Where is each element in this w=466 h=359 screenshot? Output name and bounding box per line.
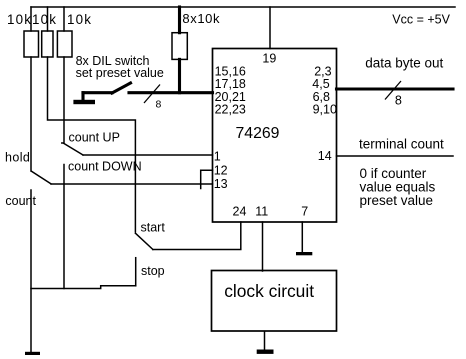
ground G2 bar pin 7 <box>296 252 312 255</box>
svg-text:1: 1 <box>214 150 221 164</box>
IC U1 74269 box <box>213 49 337 223</box>
svg-text:10k: 10k <box>67 12 92 27</box>
svg-text:11: 11 <box>255 205 268 219</box>
resistor R1 10k body <box>24 31 39 57</box>
resistor RN1 8x10k body <box>172 33 187 60</box>
wire R3 bottom lead to count UP contact <box>62 57 64 143</box>
svg-text:14: 14 <box>318 149 332 163</box>
wire pin 11 to clock circuit <box>262 222 264 271</box>
svg-text:hold: hold <box>5 151 30 165</box>
DIL switch S1 blade <box>112 83 131 93</box>
ground G1 bar <box>25 352 40 355</box>
svg-text:9,10: 9,10 <box>313 103 337 117</box>
svg-text:10k: 10k <box>32 12 57 27</box>
switch S4 blade start/stop <box>135 233 153 249</box>
bus data byte out <box>337 87 454 90</box>
DIL switch S1 horizontal <box>83 91 112 94</box>
svg-text:clock circuit: clock circuit <box>224 281 314 301</box>
resistor RN1 top lead thick <box>178 7 181 33</box>
svg-text:12: 12 <box>214 163 228 177</box>
svg-text:set preset value: set preset value <box>76 66 164 80</box>
DIL switch S1 stub <box>81 93 84 101</box>
wire pin 14 terminal count <box>337 155 454 157</box>
wire count contact to ground <box>30 190 32 352</box>
svg-text:8: 8 <box>156 99 162 111</box>
wire pin 19 Vcc lead <box>269 7 271 49</box>
wire count DOWN contact to ground rail <box>63 165 65 289</box>
svg-text:10k: 10k <box>7 12 32 27</box>
slash 8-bit bus left <box>144 85 160 104</box>
wire R2 bottom lead to start contact <box>48 57 136 232</box>
svg-text:8: 8 <box>395 94 402 108</box>
wire ground rail <box>31 286 136 289</box>
wire R3 top lead <box>63 7 65 31</box>
svg-text:22,23: 22,23 <box>215 103 246 117</box>
wire R1 bottom lead to hold contact <box>30 57 32 171</box>
wire stop contact <box>135 258 137 286</box>
wire clock circuit to ground <box>264 331 266 349</box>
wire R2 top lead <box>47 7 49 31</box>
wire Vcc top rail <box>31 6 455 8</box>
svg-text:count: count <box>5 194 36 208</box>
svg-text:count DOWN: count DOWN <box>68 160 142 174</box>
switch S2 blade hold/count <box>32 171 52 184</box>
svg-text:74269: 74269 <box>236 125 280 142</box>
svg-text:terminal count: terminal count <box>359 137 444 152</box>
wire start switch to pin 24 <box>153 222 241 250</box>
wire pin 7 to ground <box>301 222 303 252</box>
wire to pins 12,13 <box>51 183 213 185</box>
svg-text:19: 19 <box>262 52 276 66</box>
svg-text:data byte out: data byte out <box>365 56 443 71</box>
svg-text:8x10k: 8x10k <box>182 11 220 26</box>
wire pin 12/13 bracket <box>201 170 213 188</box>
resistor R2 10k body <box>42 31 53 57</box>
svg-text:start: start <box>141 221 166 235</box>
resistor RN1 bottom lead thick <box>178 59 181 92</box>
svg-text:stop: stop <box>141 264 165 278</box>
svg-text:preset value: preset value <box>360 193 434 208</box>
svg-text:Vcc = +5V: Vcc = +5V <box>392 13 450 27</box>
svg-text:24: 24 <box>233 205 247 219</box>
bus preset value 8-bit <box>129 91 213 94</box>
clock circuit box <box>212 271 337 332</box>
svg-text:13: 13 <box>214 177 228 191</box>
wire to pin 1 <box>83 154 213 156</box>
slash 8-bit bus right <box>385 81 401 100</box>
DIL switch S1 pad <box>73 100 95 104</box>
switch S3 blade count UP/DOWN <box>64 144 83 156</box>
svg-text:7: 7 <box>301 205 308 219</box>
resistor R3 10k body <box>57 31 72 57</box>
ground G3 bar clock <box>257 350 274 354</box>
wire R1 top lead <box>30 7 32 31</box>
svg-text:count UP: count UP <box>69 131 120 145</box>
